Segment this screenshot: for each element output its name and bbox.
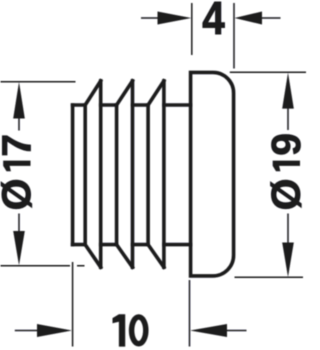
dim 4 left arrowhead — [158, 12, 192, 25]
dim 10 left arrowhead — [37, 324, 72, 337]
dim d17 top arrowhead — [13, 82, 25, 119]
svg-text:Ø: Ø — [0, 178, 40, 210]
dim d17 line lower stem — [18, 214, 20, 233]
dim d17 extension line bottom — [1, 265, 85, 267]
dim d19 line lower stem — [287, 214, 289, 243]
dim d19 extension line bottom — [235, 276, 304, 278]
dim d17 extension line top — [1, 81, 76, 83]
dim 10 value label digit 0 — [132, 317, 146, 344]
dim 4 left arrow tail — [141, 17, 158, 19]
fin 3 crease vertical — [146, 105, 150, 245]
dim 4 extension line right — [233, 3, 235, 69]
dim d19 value label digit 1 — [273, 161, 300, 172]
plug core bottom line — [73, 243, 191, 247]
dim 10 right arrow tail — [226, 330, 247, 332]
dim d19 top arrowhead — [282, 73, 294, 109]
fin 1 top cone — [85, 81, 101, 105]
dim d19 extension line top — [230, 71, 306, 73]
dim 10 right arrowhead — [190, 324, 227, 337]
fin 2 bottom cone — [117, 245, 133, 268]
svg-text:9: 9 — [263, 133, 307, 156]
dim d17 value label digit 1 — [3, 161, 30, 172]
fin 2 top cone — [117, 81, 133, 105]
fin 2 peak vertical — [131, 81, 135, 267]
dim 10 extension line right — [189, 280, 191, 347]
dim d17 line upper stem — [18, 117, 20, 131]
plug core top line — [73, 103, 191, 107]
dim 10 left arrow tail — [15, 330, 38, 332]
dim d17 bottom arrowhead — [13, 231, 25, 265]
fin 2 crease vertical — [115, 105, 119, 245]
fin 1 bottom cone — [85, 245, 101, 268]
fin 1 crease vertical — [83, 105, 87, 245]
dim d19 bottom arrowhead — [282, 243, 294, 278]
dim d19 line upper stem — [287, 108, 289, 131]
dim 4 right arrowhead — [235, 12, 263, 25]
fin 1 peak vertical — [99, 81, 103, 267]
svg-text:Ø: Ø — [263, 178, 307, 210]
svg-text:4: 4 — [202, 0, 225, 44]
fin 3 top cone — [148, 81, 164, 105]
dim 10 value label digit 1 — [113, 314, 126, 346]
svg-text:7: 7 — [0, 134, 40, 157]
plug body left edge — [71, 105, 75, 245]
fin 3 bottom cone — [148, 245, 164, 268]
fin 3 peak vertical — [162, 81, 166, 267]
cap head outline — [191, 72, 234, 276]
dim 4 extension line left — [191, 3, 193, 55]
dim 4 right arrow tail — [261, 17, 281, 19]
dim 10 extension line left — [72, 262, 74, 347]
